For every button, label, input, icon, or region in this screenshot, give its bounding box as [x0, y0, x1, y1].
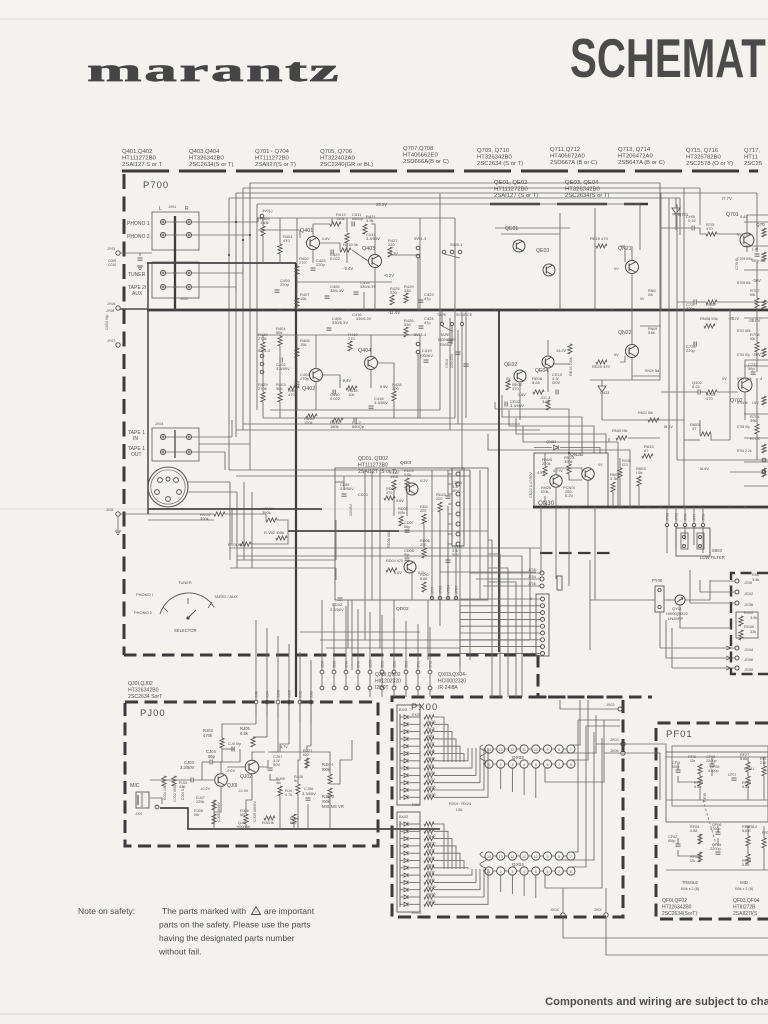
nested loops group2	[434, 824, 444, 869]
svg-text:5.64: 5.64	[532, 380, 541, 385]
wire qy bottom	[680, 605, 731, 628]
transistor QD02	[404, 561, 416, 573]
wire cap stack v458	[457, 330, 459, 424]
svg-text:BX02: BX02	[399, 815, 408, 819]
svg-text:JJ05: JJ05	[288, 690, 292, 698]
svg-text:TREBLE: TREBLE	[682, 880, 698, 885]
svg-text:MID: MID	[740, 880, 748, 885]
svg-text:R707 I0k: R707 I0k	[737, 233, 751, 237]
wire staircase 1	[495, 402, 569, 453]
svg-text:4: 4	[523, 870, 525, 874]
svg-text:220k: 220k	[196, 800, 204, 804]
wire right col v677	[676, 204, 678, 460]
wire pf bottom rail	[666, 869, 768, 871]
svg-text:56p: 56p	[208, 754, 216, 759]
wire jx04 drop	[562, 888, 564, 913]
wire h470 long	[229, 469, 470, 471]
wire q702 emitter	[744, 392, 746, 420]
svg-text:HII1202320: HII1202320	[375, 679, 401, 685]
wire right col v661	[660, 193, 662, 310]
wire long v530 drop	[529, 548, 531, 640]
wire qd bottom extra drops	[351, 600, 353, 670]
svg-text:4.7k: 4.7k	[285, 793, 292, 797]
svg-text:5.6 E: 5.6 E	[742, 829, 751, 833]
svg-text:330/6.3V: 330/6.3V	[360, 284, 376, 289]
svg-text:330/6.3V: 330/6.3V	[332, 320, 348, 325]
thick vertical x499	[498, 310, 500, 652]
wire qj01 emitter drops	[220, 787, 222, 800]
wire qn30 internal	[544, 453, 546, 466]
wire h255 link	[390, 254, 420, 256]
svg-text:R7I4 Ik: R7I4 Ik	[737, 401, 748, 405]
svg-text:CD03: CD03	[358, 493, 368, 497]
wire qj02 emitter drops	[246, 774, 252, 814]
wire pj entry bends	[222, 724, 256, 738]
wire qe extra v595	[594, 208, 596, 310]
wire mesh v332	[331, 218, 333, 224]
svg-text:(00/I6V.: (00/I6V.	[420, 353, 434, 358]
wire tape risers	[231, 420, 233, 437]
wire cap stack v466	[465, 310, 467, 418]
svg-text:11: 11	[522, 855, 526, 859]
svg-text:0.6V: 0.6V	[322, 237, 330, 241]
svg-text:0.7?V: 0.7?V	[553, 469, 563, 473]
svg-text:13: 13	[499, 855, 503, 859]
svg-text:TAPE: TAPE	[440, 333, 450, 337]
svg-text:CJII I0p: CJII I0p	[228, 742, 241, 746]
svg-text:3.3/50V: 3.3/50V	[374, 400, 388, 405]
junction dots bundle	[235, 221, 237, 223]
svg-text:PHONO 2: PHONO 2	[134, 610, 153, 615]
wire staircase long	[488, 434, 630, 507]
wire bundle top h4	[250, 182, 660, 184]
transistor QJ02	[245, 760, 259, 774]
svg-text:PY00: PY00	[652, 578, 663, 583]
svg-text:15k: 15k	[300, 342, 306, 347]
svg-text:SOURCE: SOURCE	[456, 313, 473, 317]
block PF01 dashed border	[656, 723, 768, 919]
svg-text:I.8k: I.8k	[456, 807, 462, 812]
svg-text:Note on safety:: Note on safety:	[78, 906, 135, 916]
svg-text:5V01-3: 5V01-3	[414, 237, 426, 241]
svg-text:39k: 39k	[750, 418, 756, 423]
svg-text:J7I0: J7I0	[345, 661, 349, 668]
wire PJ pin feeds	[255, 620, 257, 700]
svg-text:RX25: RX25	[412, 713, 421, 717]
svg-text:HT326342B0: HT326342B0	[565, 187, 600, 193]
svg-text:I3k: I3k	[708, 306, 713, 311]
wire riser r4	[235, 287, 237, 292]
svg-text:C7I8 I0p: C7I8 I0p	[737, 425, 750, 429]
box BX01	[397, 705, 420, 805]
wire jg feeds	[710, 580, 735, 582]
svg-text:470: 470	[706, 396, 713, 401]
connector JG08	[735, 656, 739, 660]
svg-text:I00k x 2 (B): I00k x 2 (B)	[681, 887, 699, 891]
dashed pot link	[703, 800, 716, 844]
block PJ00 dashed border	[125, 702, 378, 846]
wire h572 long	[440, 571, 536, 573]
svg-text:3.3/50V: 3.3/50V	[510, 403, 524, 408]
svg-text:HT11: HT11	[744, 155, 758, 161]
svg-text:HT322402A0: HT322402A0	[320, 156, 355, 162]
svg-text:0.6V: 0.6V	[518, 393, 526, 397]
svg-text:Q707,Q708: Q707,Q708	[403, 146, 434, 152]
wire q403 base link	[320, 243, 340, 250]
transistor QJ01	[215, 774, 228, 787]
resistor array group2	[424, 822, 434, 826]
svg-text:LOW FILTER: LOW FILTER	[700, 555, 725, 560]
wire strip left bends	[459, 599, 461, 645]
svg-text:R703: R703	[750, 436, 760, 441]
svg-text:JG50: JG50	[744, 668, 753, 672]
svg-text:3.3k: 3.3k	[610, 476, 618, 481]
svg-text:RN08 53k: RN08 53k	[700, 316, 718, 321]
svg-text:JJ0I: JJ0I	[135, 812, 142, 816]
svg-text:RE20 470: RE20 470	[592, 364, 611, 369]
svg-text:QX03: QX03	[512, 755, 524, 760]
IC QX03 left brace	[480, 745, 486, 764]
svg-text:QN22: QN22	[618, 330, 632, 336]
svg-text:56k: 56k	[276, 330, 282, 335]
svg-text:220: 220	[436, 497, 442, 501]
selector ticks	[163, 607, 168, 612]
IC QX04 top pin row	[485, 852, 493, 860]
capacitor CE02 3.3/50V	[504, 402, 506, 407]
jack TAPE1IN L	[160, 434, 165, 439]
svg-text:4: 4	[523, 763, 525, 767]
svg-text:2200p: 2200p	[706, 759, 717, 763]
wire staircase 5	[523, 426, 618, 507]
svg-text:R50: R50	[752, 573, 759, 577]
svg-text:27k: 27k	[760, 761, 766, 765]
svg-text:IR-24I8A: IR-24I8A	[438, 685, 458, 691]
connector JX03	[621, 742, 625, 746]
svg-text:J2I8: J2I8	[321, 661, 325, 668]
selector arc	[160, 593, 214, 614]
svg-text:RX24: RX24	[427, 827, 436, 831]
connector JX01	[604, 913, 608, 917]
wire qj01 collector	[220, 762, 222, 773]
svg-text:JX04: JX04	[550, 908, 559, 912]
wire qe02 emitter	[519, 383, 521, 420]
svg-text:47: 47	[692, 426, 697, 431]
svg-text:220: 220	[390, 290, 397, 295]
svg-text:680Qp: 680Qp	[352, 424, 365, 429]
svg-text:HT406662E0: HT406662E0	[403, 153, 438, 159]
svg-text:JG0I: JG0I	[744, 581, 752, 585]
IC QX04 left brace	[480, 852, 486, 871]
svg-text:MONITOR: MONITOR	[438, 338, 456, 342]
wire right edge stubs	[756, 215, 758, 252]
svg-text:RJI3 Ik: RJI3 Ik	[262, 821, 274, 825]
wire rn mesh	[608, 438, 610, 442]
svg-text:220p: 220p	[686, 306, 696, 311]
svg-text:C010: C010	[108, 263, 116, 267]
svg-text:47: 47	[644, 448, 649, 453]
svg-text:TUNER: TUNER	[128, 272, 146, 278]
svg-text:C910: C910	[445, 359, 449, 368]
wire bundle right drops	[756, 193, 758, 215]
jack TAPE1OUT R	[186, 449, 191, 454]
svg-text:RX05: RX05	[427, 786, 436, 790]
svg-text:JY07: JY07	[107, 339, 115, 343]
svg-text:2SC2634(S or T): 2SC2634(S or T)	[189, 162, 233, 168]
wire riser r2	[249, 235, 251, 240]
nested loops group1	[434, 717, 444, 762]
connector JG50	[735, 666, 739, 670]
connector strip JD	[452, 468, 464, 546]
wire long v522 drop	[521, 556, 523, 697]
connector JY05	[116, 251, 120, 255]
wire jg feed drops	[699, 580, 701, 592]
block P700 left dashed border	[123, 174, 126, 655]
svg-text:JG04: JG04	[744, 648, 753, 652]
svg-text:5.66: 5.66	[420, 577, 427, 581]
svg-text:270k: 270k	[258, 386, 267, 391]
wire q402 transistor links	[315, 335, 317, 368]
svg-text:J704: J704	[528, 575, 536, 579]
svg-text:25.2V: 25.2V	[376, 202, 387, 207]
connector JG04	[735, 646, 739, 650]
svg-text:11: 11	[522, 748, 526, 752]
wire qd top rail	[335, 481, 344, 483]
wire qy links	[590, 599, 655, 601]
svg-text:2: 2	[500, 763, 502, 767]
svg-text:J209: J209	[369, 660, 373, 668]
wire rj22 top	[306, 758, 308, 768]
svg-text:J2I6: J2I6	[333, 661, 337, 668]
svg-text:3: 3	[511, 870, 513, 874]
svg-text:DJ0I 5.6: DJ0I 5.6	[181, 786, 185, 800]
svg-text:R0I9: R0I9	[427, 734, 434, 738]
svg-text:5: 5	[535, 870, 537, 874]
junction dots on input bus	[174, 221, 177, 224]
pin row circles upper	[320, 670, 324, 674]
svg-text:3.9k: 3.9k	[750, 616, 757, 620]
connector J706	[540, 584, 544, 588]
wire pf lower verts	[699, 834, 701, 844]
svg-text:2.2/50V: 2.2/50V	[340, 486, 354, 491]
svg-text:I0k: I0k	[648, 293, 653, 297]
svg-text:I0k: I0k	[750, 336, 755, 341]
svg-text:I0k: I0k	[750, 292, 755, 297]
wire jx03 links	[596, 743, 621, 745]
svg-text:7: 7	[570, 855, 572, 859]
svg-text:2SAII27I(S: 2SAII27I(S	[733, 911, 758, 917]
svg-text:J7I7: J7I7	[693, 514, 697, 521]
wire PJ pin drops	[255, 704, 257, 714]
svg-text:C7I6 I0p: C7I6 I0p	[737, 353, 750, 357]
wire q401 rail h218	[257, 217, 455, 219]
wire strip fan	[460, 598, 540, 600]
svg-text:RN24 3la: RN24 3la	[645, 369, 659, 373]
wire v660 long	[659, 210, 661, 380]
svg-text:C709 I00p: C709 I00p	[737, 257, 753, 261]
svg-text:47p: 47p	[424, 296, 431, 301]
svg-text:470: 470	[288, 392, 295, 397]
svg-text:220/6V: 220/6V	[349, 503, 353, 516]
svg-text:V7B4: V7B4	[447, 585, 451, 594]
transistor QN26	[550, 475, 562, 487]
jack AUX R	[186, 284, 191, 289]
svg-text:QN51: QN51	[546, 439, 557, 444]
svg-text:RD08 I00k: RD08 I00k	[387, 530, 391, 548]
svg-text:Q404: Q404	[358, 348, 371, 354]
wire qn22 links	[631, 310, 633, 344]
connector JG06	[735, 601, 739, 605]
svg-text:3.3/50V: 3.3/50V	[302, 791, 316, 796]
svg-text:2SC2634(SorT): 2SC2634(SorT)	[662, 911, 697, 917]
wire v470 to pj	[469, 600, 471, 660]
svg-text:9: 9	[547, 855, 549, 859]
wire q402 rail h418	[263, 417, 455, 419]
wire rj row drops	[279, 796, 281, 829]
svg-text:HT206472A0: HT206472A0	[618, 154, 653, 160]
wire h446 bottom bundle	[236, 429, 540, 431]
svg-text:PF01: PF01	[666, 729, 693, 740]
svg-text:I00k: I00k	[322, 767, 331, 772]
mic connector JJ01	[155, 805, 159, 809]
wire pin row drops to PX00	[369, 690, 371, 697]
svg-text:12: 12	[511, 855, 515, 859]
wire h640 long	[320, 639, 530, 641]
svg-text:RX23: RX23	[427, 720, 436, 724]
svg-text:LN26RP: LN26RP	[668, 616, 683, 621]
svg-text:J7I7: J7I7	[431, 587, 435, 594]
box QD outer	[335, 468, 488, 600]
wire below px00 b	[606, 917, 768, 955]
svg-text:RN2I I5k: RN2I I5k	[638, 411, 653, 415]
svg-text:RE19 470: RE19 470	[590, 236, 609, 241]
svg-text:JX06: JX06	[610, 749, 619, 753]
wire staircase 4	[516, 418, 606, 453]
svg-text:J706: J706	[528, 582, 536, 586]
thick left vert	[147, 263, 149, 514]
svg-text:4Ik: 4Ik	[276, 781, 281, 785]
junction dots lower bus extra	[549, 506, 551, 508]
svg-text:270k: 270k	[258, 336, 267, 341]
svg-text:8: 8	[558, 748, 560, 752]
jack PHONO2 R	[186, 232, 191, 237]
S603 switch contacts	[681, 533, 688, 549]
svg-text:I2k: I2k	[690, 859, 695, 863]
wire tape link h444	[199, 444, 250, 470]
svg-text:RN2I I5k: RN2I I5k	[612, 428, 628, 433]
svg-text:QX04: QX04	[512, 862, 524, 867]
svg-text:6.2V: 6.2V	[420, 479, 428, 483]
svg-text:220: 220	[388, 242, 395, 247]
connector J704	[540, 577, 544, 581]
svg-text:220: 220	[392, 386, 399, 391]
svg-text:QE02: QE02	[504, 362, 517, 368]
wire h380	[590, 379, 660, 381]
svg-text:-36V: -36V	[752, 278, 761, 283]
wire bundle top h2	[243, 187, 700, 189]
wire riser r3	[242, 268, 244, 273]
svg-text:Q713, Q714: Q713, Q714	[618, 147, 651, 153]
wire q702 base	[661, 391, 698, 393]
IC QX04 bottom pin row	[485, 867, 493, 875]
wire v462 border drops	[461, 326, 463, 470]
connector right 460	[762, 458, 766, 462]
wire q403 emitter	[374, 268, 376, 310]
junctions on main bus	[174, 309, 177, 312]
wire qd internal verts	[364, 470, 366, 600]
svg-text:-11.4V: -11.4V	[388, 310, 400, 315]
capacitor C425 marks	[448, 339, 453, 341]
wire right col v684	[683, 188, 685, 507]
svg-text:C004 I0p: C004 I0p	[105, 315, 109, 330]
svg-text:JJI6: JJI6	[255, 691, 259, 698]
svg-text:3.3/50V: 3.3/50V	[180, 765, 195, 770]
svg-text:PJ00: PJ00	[140, 708, 166, 719]
tape jack panel rect	[152, 428, 199, 461]
svg-text:2SC2578 (O or Y): 2SC2578 (O or Y)	[686, 161, 733, 167]
block JG dashed border	[731, 573, 768, 674]
wire mic to qj01	[150, 779, 191, 781]
svg-text:5.9V: 5.9V	[380, 385, 388, 389]
svg-text:10: 10	[534, 855, 538, 859]
svg-text:QJ0I,QJ02: QJ0I,QJ02	[128, 681, 153, 687]
svg-text:J031: J031	[106, 508, 114, 512]
svg-text:PHONO 2: PHONO 2	[127, 234, 150, 240]
svg-text:0V: 0V	[722, 377, 727, 381]
svg-text:QX03,QX04-: QX03,QX04-	[438, 672, 467, 678]
bottom page crease	[0, 1013, 768, 1015]
svg-text:JJ08: JJ08	[277, 690, 281, 698]
svg-text:marantz: marantz	[87, 53, 341, 89]
svg-text:3.9k: 3.9k	[366, 218, 374, 223]
svg-text:0.022: 0.022	[330, 256, 341, 261]
svg-text:RX0I: RX0I	[412, 803, 420, 807]
svg-text:HT326342B0: HT326342B0	[662, 905, 692, 911]
wire pf top rail	[666, 756, 700, 758]
wire bundle top h5	[257, 203, 640, 205]
right edge stack resistors	[762, 228, 766, 237]
wire qd left entries	[335, 520, 337, 560]
connector J705	[540, 571, 544, 575]
svg-text:RXI8: RXI8	[427, 849, 435, 853]
svg-text:JG02: JG02	[744, 592, 753, 596]
svg-text:Q717,: Q717,	[744, 148, 760, 154]
DIN pin center	[166, 477, 170, 481]
IC QX03 top pin row	[485, 745, 493, 753]
svg-text:RX06: RX06	[427, 893, 436, 897]
wire right col v669	[668, 198, 670, 507]
svg-text:2SB647A (B or C): 2SB647A (B or C)	[618, 160, 665, 166]
svg-text:J708: J708	[666, 513, 670, 521]
svg-text:HT326342B0: HT326342B0	[189, 156, 224, 162]
svg-text:I23: I23	[622, 462, 628, 467]
svg-text:SCHEMATIC: SCHEMATIC	[570, 28, 768, 90]
svg-text:J7I8: J7I8	[702, 514, 706, 521]
svg-text:56p: 56p	[748, 366, 755, 371]
svg-text:I00k: I00k	[398, 511, 405, 515]
svg-text:RD04 470: RD04 470	[386, 559, 403, 563]
DIN pins	[158, 478, 163, 483]
svg-text:QD0I: QD0I	[400, 460, 411, 466]
svg-text:0V: 0V	[640, 297, 645, 301]
wire qx03 top exits	[579, 700, 581, 710]
svg-text:0V: 0V	[598, 463, 603, 467]
svg-text:JG06: JG06	[744, 658, 753, 662]
svg-text:JG36: JG36	[744, 603, 753, 607]
relay PY00 box	[655, 586, 664, 612]
svg-text:6: 6	[547, 870, 549, 874]
svg-text:QE04: QE04	[535, 368, 548, 374]
mic jack	[136, 792, 149, 808]
